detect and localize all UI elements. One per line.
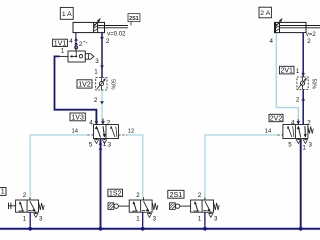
svg-text:1: 1: [136, 215, 140, 222]
svg-text:2 A: 2 A: [260, 10, 270, 17]
svg-text:1: 1: [296, 68, 300, 75]
svg-text:3: 3: [108, 141, 112, 148]
svg-text:5: 5: [288, 141, 292, 148]
svg-text:4: 4: [270, 38, 274, 45]
svg-text:4: 4: [291, 119, 295, 126]
svg-text:1: 1: [94, 69, 98, 76]
svg-text:2: 2: [94, 97, 98, 104]
svg-text:4: 4: [69, 38, 73, 45]
svg-text:1S2: 1S2: [109, 190, 122, 197]
svg-text:1V2: 1V2: [78, 81, 91, 88]
svg-text:2V2: 2V2: [270, 116, 283, 123]
svg-text:50%: 50%: [311, 79, 317, 90]
svg-text:1: 1: [1, 189, 5, 196]
svg-text:2: 2: [79, 41, 83, 48]
svg-text:50%: 50%: [109, 79, 115, 90]
svg-text:v=0.02: v=0.02: [107, 32, 126, 38]
svg-text:1: 1: [61, 48, 65, 55]
svg-text:12: 12: [128, 129, 134, 135]
svg-text:2: 2: [296, 96, 300, 103]
svg-text:2: 2: [136, 192, 140, 199]
svg-text:3: 3: [39, 215, 43, 222]
svg-text:1: 1: [302, 145, 306, 152]
svg-text:2V1: 2V1: [280, 68, 293, 75]
svg-text:3: 3: [214, 215, 218, 222]
svg-text:5: 5: [89, 141, 93, 148]
svg-text:1: 1: [103, 141, 107, 148]
svg-text:2: 2: [106, 38, 110, 45]
svg-text:4: 4: [89, 119, 93, 126]
svg-text:2: 2: [198, 192, 202, 199]
svg-text:2S1: 2S1: [129, 16, 139, 22]
svg-text:1V3: 1V3: [71, 114, 84, 121]
svg-text:1: 1: [23, 215, 27, 222]
svg-text:3: 3: [153, 215, 157, 222]
svg-text:3: 3: [95, 58, 99, 65]
svg-text:1V1: 1V1: [54, 40, 67, 47]
svg-text:3: 3: [309, 141, 313, 148]
svg-text:2: 2: [23, 192, 27, 199]
svg-text:2S1: 2S1: [170, 192, 183, 199]
svg-text:14: 14: [72, 129, 79, 135]
svg-text:1: 1: [198, 215, 202, 222]
svg-text:2: 2: [307, 119, 311, 126]
svg-text:2: 2: [307, 38, 311, 45]
svg-text:14: 14: [265, 129, 272, 135]
svg-text:2: 2: [107, 119, 111, 126]
svg-text:1 A: 1 A: [62, 11, 72, 18]
